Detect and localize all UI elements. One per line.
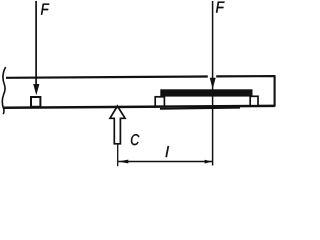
beam right end edge	[274, 75, 276, 106]
beam bottom edge	[4, 106, 275, 108]
force F left arrow shaft	[35, 1, 37, 86]
support force C hollow arrow	[110, 106, 125, 144]
dimension left arrowhead	[118, 160, 128, 164]
force F left arrowhead	[33, 84, 39, 95]
force F right arrow shaft and extension line	[212, 1, 214, 166]
left bearing support block	[155, 97, 164, 106]
extension line below C arrow	[117, 144, 119, 166]
beam left break line	[2, 67, 5, 114]
label F (left)	[41, 4, 49, 15]
label F (right)	[216, 2, 225, 13]
label C	[131, 134, 139, 145]
label l	[166, 146, 169, 157]
dimension right arrowhead	[205, 160, 213, 164]
right bearing support block	[250, 96, 258, 105]
left knife-edge support square	[31, 97, 40, 107]
specimen bar (solid)	[160, 89, 252, 96]
force F right arrowhead	[210, 78, 216, 89]
beam top edge (right segment after gap at force arrow)	[216, 75, 275, 78]
beam bottom edge thickening under specimen	[160, 108, 240, 109]
beam top edge (left segment)	[6, 77, 208, 78]
dimension line l	[118, 161, 212, 163]
